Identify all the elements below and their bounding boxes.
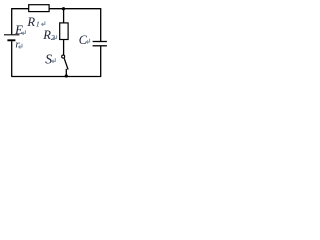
svg-text:r: r (15, 38, 20, 50)
svg-text:1: 1 (36, 20, 40, 29)
svg-text:C: C (79, 33, 88, 47)
svg-text:R: R (42, 28, 51, 42)
wire below switch (65, 69, 67, 77)
resistor R2 (60, 23, 68, 40)
pilcrow after E (22, 30, 25, 35)
wire right upper (100, 8, 102, 41)
wire top-left segment (12, 8, 29, 10)
wire R2 branch upper (63, 9, 65, 23)
wire right lower (100, 46, 102, 76)
svg-text:E: E (14, 22, 23, 37)
pilcrow after R1 (42, 21, 45, 26)
pilcrow after R2 (53, 35, 56, 40)
svg-text:R: R (26, 15, 35, 29)
node junction dot top (62, 7, 65, 10)
wire top-right segment (49, 8, 101, 10)
pilcrow after S (52, 58, 55, 63)
wire left upper (11, 8, 13, 34)
capacitor C top plate (93, 41, 107, 43)
switch S pivot circle (62, 55, 65, 58)
wire left lower (11, 41, 13, 76)
resistor R1 (29, 5, 49, 12)
node junction dot bottom (65, 74, 68, 77)
switch S blade (64, 58, 68, 69)
wire bottom rail (11, 76, 101, 78)
battery E short plate (7, 39, 15, 41)
capacitor C bottom plate (93, 45, 107, 47)
pilcrow after r (19, 44, 22, 49)
wire below R2 (63, 40, 65, 56)
svg-text:S: S (45, 51, 52, 66)
pilcrow after C (86, 39, 89, 44)
battery E long plate (4, 34, 19, 36)
